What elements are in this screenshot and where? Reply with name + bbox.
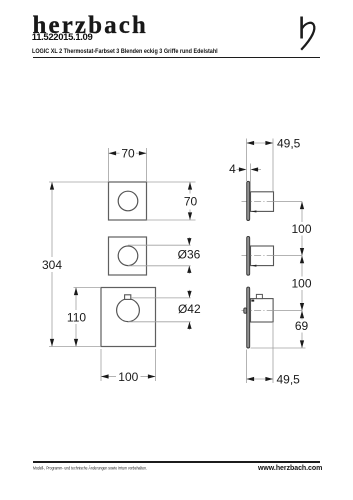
- herzbach logo mark (stylized h): [294, 12, 320, 54]
- escutcheon plate 2 (middle square): [109, 237, 147, 275]
- wall plate 2 side: [247, 236, 250, 275]
- handle 2 circle: [118, 246, 138, 266]
- dimension 70 (top width): [109, 148, 147, 182]
- centerline handle 1: [242, 201, 274, 203]
- temperature stop bump on plate 3: [244, 308, 247, 313]
- dimension 70 (right height): [147, 182, 196, 220]
- dimension 100 (handle 1 to handle 2): [301, 202, 303, 256]
- centerline handle 3: [242, 310, 274, 312]
- wall plate 1 side: [247, 181, 250, 220]
- extension line top (304 + 70) at y=182: [49, 181, 196, 183]
- centerline handle 2: [242, 255, 274, 257]
- dimension 49,5 bottom: [247, 323, 274, 383]
- dimension 100 (handle 2 to handle 3): [301, 256, 303, 311]
- dimension 110 (bottom plate height): [74, 288, 102, 347]
- herzbach wordmark: [33, 13, 148, 38]
- dimension 304 (overall height): [49, 182, 101, 347]
- dimension diameter 36: [128, 237, 191, 274]
- header rule: [33, 57, 320, 59]
- thermostat handle cylinder side: [251, 299, 274, 322]
- dimension 4 (plate thickness): [237, 164, 262, 192]
- dimension 100 (bottom width): [101, 349, 156, 381]
- escutcheon plate 1 (top square 70x70): [109, 182, 147, 220]
- handle 3 index mark: [251, 300, 254, 302]
- safety button notch side: [256, 294, 262, 298]
- escutcheon plate 3 (bottom square 100x110): [101, 288, 156, 347]
- description line: [32, 49, 218, 55]
- handle 1 cylinder side: [251, 192, 274, 212]
- footer url: [258, 465, 322, 472]
- dimension 49,5 top: [247, 139, 274, 192]
- handle 2 cylinder side: [251, 246, 274, 266]
- svg-text:Modell-, Programm- und technis: Modell-, Programm- und technische Änderu…: [33, 466, 147, 471]
- handle 1 index mark: [251, 210, 256, 212]
- dimension 69 (handle 3 to plate bottom): [251, 311, 306, 348]
- footer rule: [33, 461, 320, 463]
- article number: [32, 33, 93, 43]
- handle 1 circle: [118, 191, 138, 211]
- thermostat handle circle: [117, 299, 140, 322]
- safety button notch front: [125, 295, 131, 300]
- dimension diameter 42: [128, 290, 191, 330]
- handle 2 index mark: [251, 265, 256, 267]
- wall plate 3 side: [247, 287, 250, 348]
